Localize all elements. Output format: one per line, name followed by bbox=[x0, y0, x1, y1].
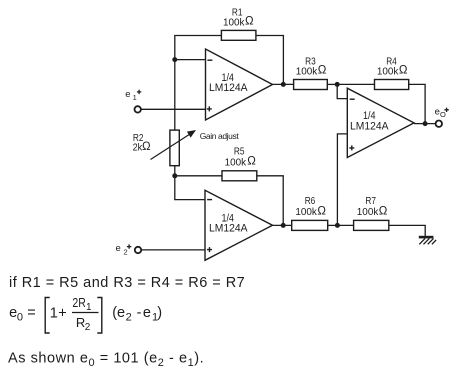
left bracket bbox=[45, 298, 50, 334]
wire: U2 output to R6 bbox=[273, 224, 292, 226]
wire: R6 right to node E bbox=[328, 224, 338, 226]
terminal e2 circle bbox=[135, 247, 141, 253]
resistor R5 box bbox=[222, 171, 257, 181]
svg-text:100k: 100k bbox=[223, 18, 245, 29]
ground symbol bbox=[419, 237, 436, 244]
wire: e1 terminal to U1 non-inverting input bbox=[141, 108, 206, 110]
label R2 bbox=[133, 133, 151, 154]
svg-text:R6: R6 bbox=[305, 196, 316, 207]
junction: U2 output node bbox=[281, 223, 286, 228]
wire: node C down to U3 inverting input bbox=[337, 84, 347, 98]
wire: R5 right to U2 output bbox=[257, 176, 283, 226]
svg-text:e: e bbox=[116, 243, 121, 254]
svg-text:Ω: Ω bbox=[245, 16, 254, 28]
wire: U3 output to eo terminal bbox=[414, 123, 435, 125]
wire: node A down to R2 top bbox=[174, 60, 176, 131]
wire: R7 right to ground bbox=[389, 225, 425, 236]
svg-text:0: 0 bbox=[17, 311, 23, 323]
svg-text:-: - bbox=[137, 305, 142, 321]
label R7 bbox=[357, 196, 388, 218]
wire: R1 feedback loop left/top bbox=[175, 36, 222, 60]
label eo bbox=[435, 106, 449, 119]
label R4 bbox=[377, 56, 408, 77]
svg-text:if R1 = R5 and R3 = R4 = R6 =: if R1 = R5 and R3 = R4 = R6 = R7 bbox=[9, 275, 245, 291]
svg-text:1: 1 bbox=[86, 302, 92, 313]
svg-text:Ω: Ω bbox=[142, 141, 151, 153]
op-amp U1 (1/4 LM124A top left) bbox=[206, 49, 273, 120]
svg-text:Ω: Ω bbox=[318, 64, 327, 76]
terminal eo circle bbox=[436, 121, 442, 127]
resistor R7 box bbox=[354, 220, 389, 230]
svg-text:R5: R5 bbox=[234, 146, 245, 157]
svg-text:LM124A: LM124A bbox=[209, 82, 248, 94]
svg-text:100k: 100k bbox=[357, 207, 379, 218]
svg-text:100k: 100k bbox=[295, 207, 317, 218]
svg-text:Ω: Ω bbox=[379, 205, 388, 217]
svg-text:Ω: Ω bbox=[399, 64, 408, 76]
resistor R2 box (variable) bbox=[170, 130, 179, 166]
label R5 bbox=[225, 146, 257, 168]
label R6 bbox=[295, 196, 326, 218]
svg-text:LM124A: LM124A bbox=[209, 222, 248, 234]
right bracket bbox=[97, 298, 102, 334]
wire: node E to R7 left bbox=[337, 224, 353, 226]
fraction bar bbox=[72, 312, 99, 314]
svg-text:R7: R7 bbox=[365, 196, 376, 207]
svg-text:+: + bbox=[58, 306, 66, 322]
wire: R4 right down to output node D bbox=[409, 84, 425, 123]
svg-text:2R: 2R bbox=[72, 295, 85, 310]
label R1 bbox=[223, 8, 254, 29]
svg-text:LM124A: LM124A bbox=[350, 120, 389, 132]
svg-text:100k: 100k bbox=[225, 157, 247, 168]
label e2 bbox=[116, 243, 132, 257]
svg-text:As shown e0 = 101 (e2 - e1).: As shown e0 = 101 (e2 - e1). bbox=[8, 351, 204, 369]
wire: node A to U1 inverting input bbox=[175, 59, 206, 61]
svg-text:e: e bbox=[143, 305, 151, 321]
svg-text:Ω: Ω bbox=[247, 156, 256, 168]
op-amp U2 (1/4 LM124A bottom left) bbox=[205, 190, 273, 260]
formula line 2: e0 = [1 + 2R1/R2] (e2 -e1) bbox=[9, 295, 162, 333]
svg-text:2: 2 bbox=[85, 322, 91, 333]
svg-text:100k: 100k bbox=[377, 66, 399, 77]
svg-text:100k: 100k bbox=[296, 66, 318, 77]
svg-text:=: = bbox=[27, 305, 35, 321]
terminal e1 circle bbox=[135, 106, 141, 112]
label R3 bbox=[296, 56, 327, 77]
resistor R6 box bbox=[292, 220, 328, 230]
junction node E (R6/R7/U3 non-inverting) bbox=[335, 223, 340, 228]
wire: node E up to U3 non-inverting input bbox=[337, 134, 347, 226]
wire: R2 bottom to node B bbox=[174, 166, 176, 176]
junction node B (R2/R5/U2 inverting) bbox=[172, 173, 177, 178]
svg-text:): ) bbox=[157, 305, 162, 321]
junction node D (output node) bbox=[423, 121, 428, 126]
wire: node B down to U2 inverting input bbox=[175, 176, 205, 200]
svg-text:1: 1 bbox=[133, 93, 137, 102]
svg-text:(e: (e bbox=[112, 305, 125, 321]
junction: U1 output node bbox=[281, 82, 286, 87]
label e1 bbox=[125, 89, 141, 102]
wire: node B to R5 left bbox=[175, 175, 222, 177]
svg-text:e: e bbox=[125, 89, 130, 100]
svg-text:Ω: Ω bbox=[317, 205, 326, 217]
op-amp U3 (1/4 LM124A right) bbox=[347, 88, 414, 157]
wire: U1 output to R3 bbox=[273, 83, 294, 85]
wire: R1 right to op-amp U1 output bbox=[256, 36, 284, 85]
svg-text:2: 2 bbox=[126, 311, 132, 323]
svg-text:2: 2 bbox=[124, 248, 128, 257]
resistor R4 box bbox=[375, 80, 409, 90]
wire: node C to R4 left bbox=[337, 83, 374, 85]
junction node A (U1 inverting input) bbox=[172, 57, 177, 62]
svg-text:1: 1 bbox=[50, 306, 58, 322]
resistor R3 box bbox=[294, 80, 328, 90]
wire: e2 terminal to U2 non-inverting input bbox=[141, 249, 205, 251]
wire: R3 right to node C bbox=[327, 83, 337, 85]
resistor R1 box bbox=[221, 30, 256, 40]
svg-text:Gain adjust: Gain adjust bbox=[200, 131, 240, 141]
R2 potentiometer arrow bbox=[151, 130, 197, 160]
svg-text:O: O bbox=[440, 110, 446, 119]
junction node C (R3/R4/U3 inverting) bbox=[335, 82, 340, 87]
